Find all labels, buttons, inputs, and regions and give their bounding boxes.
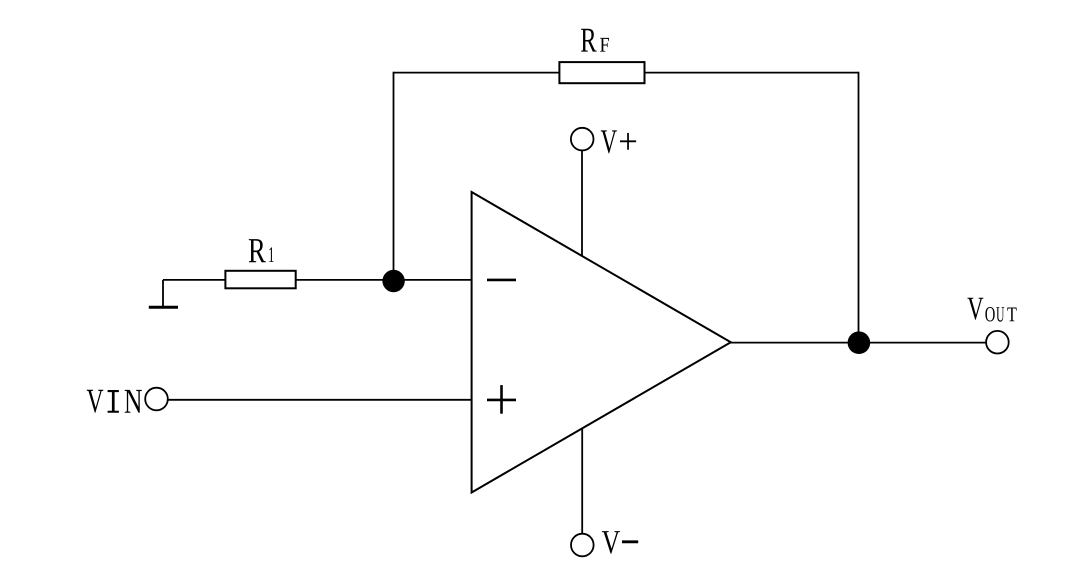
wire: output from op-amp to VOUT terminal: [731, 342, 987, 344]
wire: feedback right vertical down to output node B: [858, 72, 860, 343]
wire: feedback left vertical down to inverting node A: [393, 72, 395, 281]
label VOUT: [967, 298, 1016, 322]
wire: V+ supply stub to op-amp top edge: [581, 150, 583, 256]
ground: [149, 280, 178, 307]
node B junction dot (output): [848, 331, 871, 354]
label R1: [249, 239, 274, 262]
terminal V+ circle: [571, 128, 594, 151]
terminal VIN circle: [145, 388, 168, 411]
op-amp U1 triangle: [472, 192, 731, 493]
terminal V- circle: [571, 534, 594, 557]
wire: inverting input from ground stub to op-amp: [163, 279, 472, 281]
op-amp non-inverting input plus symbol: [487, 385, 516, 414]
label V-: [602, 531, 638, 554]
wire: V- supply stub from op-amp bottom edge: [581, 428, 583, 534]
label VIN: [87, 390, 142, 413]
terminal VOUT circle: [986, 331, 1009, 354]
node A junction dot (inverting input): [382, 270, 404, 292]
resistor RF: [559, 62, 644, 83]
wire: feedback top horizontal from node A to node B: [394, 72, 859, 74]
label RF: [581, 29, 609, 52]
wire: non-inverting input from VIN terminal to op-amp: [168, 399, 472, 401]
resistor R1: [225, 271, 295, 289]
label V+: [601, 130, 636, 153]
op-amp inverting input minus symbol: [487, 279, 516, 282]
